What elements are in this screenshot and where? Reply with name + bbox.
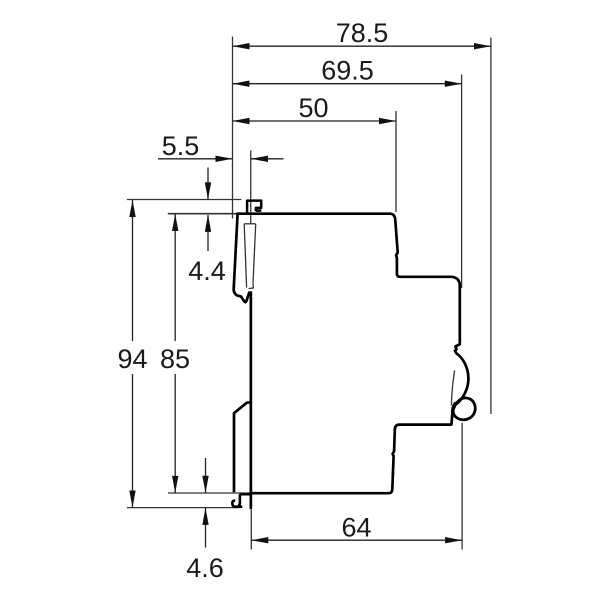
svg-text:50: 50	[298, 93, 328, 123]
extension line 85 top (y=213.7)	[168, 213, 238, 215]
extension line 50 right (x=396)	[395, 111, 397, 212]
lower catch curl	[232, 494, 240, 507]
dimension 94	[117, 200, 147, 508]
extension line 5.5 right (x=250.75)	[250, 151, 252, 224]
dimension 5.5	[158, 131, 284, 162]
extension line 85 bottom (y=493)	[168, 492, 250, 494]
lower catch arm	[234, 402, 251, 492]
extension line 64 right (x=462.1)	[461, 423, 463, 550]
extension line left (x=232.5)	[232, 37, 234, 219]
extension line 78.5 right (x=490.9)	[490, 38, 492, 415]
extension line 94 top (y=199.5)	[127, 199, 241, 201]
dimension 4.4	[188, 168, 226, 287]
clip slot top	[244, 223, 256, 225]
extension line 69.5 right (x=461.6)	[461, 75, 463, 289]
svg-text:94: 94	[117, 344, 147, 374]
extension line 64 left (x=251.3)	[250, 510, 252, 550]
clip slot right edge	[253, 224, 256, 284]
dimension 50	[233, 93, 397, 124]
lower catch top stub	[240, 493, 250, 495]
toggle lever knob	[453, 398, 475, 420]
top hook catch	[247, 201, 261, 214]
clip slot bottom notch	[249, 283, 254, 288]
lower catch curl bottom stub	[236, 505, 242, 508]
svg-text:64: 64	[341, 513, 371, 543]
svg-text:69.5: 69.5	[321, 56, 374, 86]
toggle knob junction blot	[453, 404, 456, 415]
dimension 64	[251, 513, 462, 544]
svg-text:4.4: 4.4	[188, 256, 226, 286]
dimension 69.5	[233, 56, 462, 87]
svg-text:5.5: 5.5	[162, 131, 200, 161]
clip slot left edge	[244, 224, 246, 288]
dimension 85	[160, 214, 190, 493]
svg-text:85: 85	[160, 344, 190, 374]
top hook lip	[256, 209, 261, 212]
upper-left clip leg	[234, 214, 251, 302]
toggle inner chord line	[451, 371, 454, 406]
dimension 4.6	[186, 458, 224, 583]
breaker body outline	[238, 214, 469, 494]
extension line 94 bottom (y=507.6)	[127, 507, 238, 509]
lower-left jaw edge	[250, 293, 253, 508]
svg-text:78.5: 78.5	[336, 18, 389, 48]
dimension 78.5	[233, 18, 492, 49]
svg-text:4.6: 4.6	[186, 553, 224, 583]
